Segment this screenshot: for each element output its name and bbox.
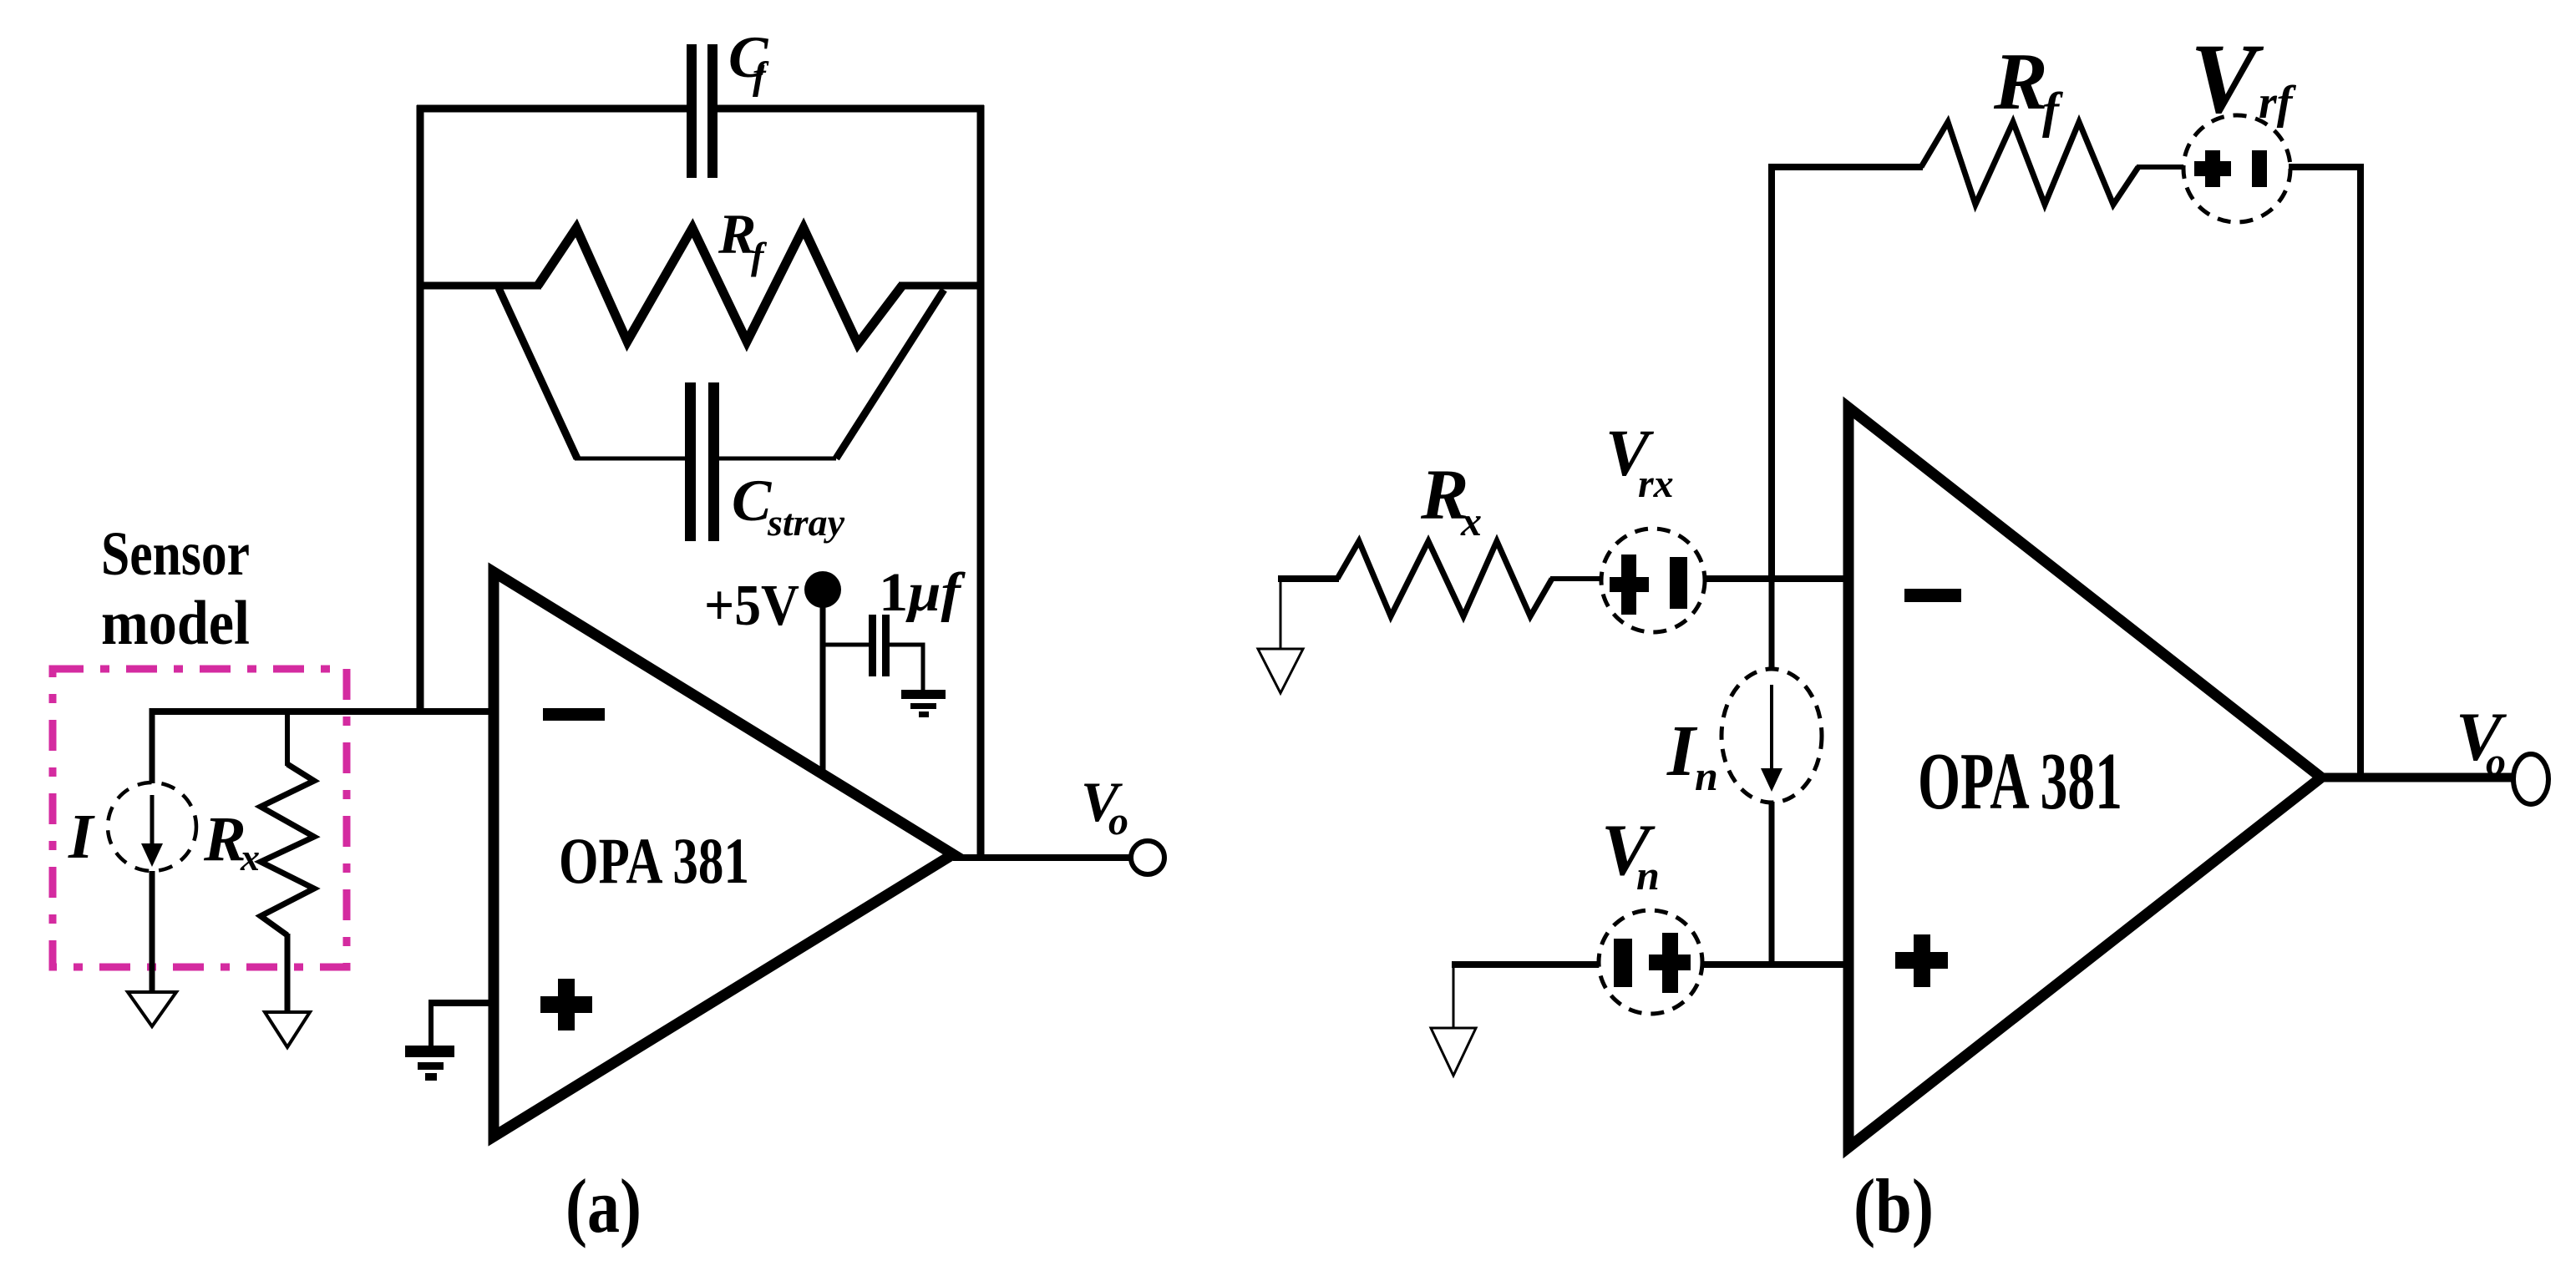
ground below current source I	[128, 992, 176, 1026]
capacitor 1uf	[869, 615, 890, 676]
wire top feedback left segment	[417, 105, 687, 113]
svg-text:C: C	[732, 468, 773, 534]
wire ground stub at non-inverting input	[428, 1000, 434, 1047]
resistor R_f	[538, 228, 902, 344]
svg-text:rx: rx	[1638, 462, 1674, 506]
plus symbol of V_rf	[2194, 150, 2231, 187]
wire Rf row left stub	[420, 282, 541, 290]
wire Vn left stub (b)	[1452, 961, 1600, 968]
wire right slant from C_stray	[836, 290, 944, 458]
wire ground drop left of Vn (b)	[1453, 966, 1455, 1029]
svg-text:x: x	[1460, 498, 1482, 544]
op-amp U1 OPA 381	[494, 572, 953, 1137]
wire ground drop left of Rx (b)	[1280, 580, 1282, 650]
svg-text:f: f	[751, 235, 768, 277]
wire output (b)	[2321, 773, 2514, 782]
wire current source to ground	[150, 871, 155, 993]
plate bar of V_rf	[2252, 150, 2267, 187]
svg-text:o: o	[1108, 799, 1128, 843]
ground below Vn stub (b)	[1431, 1028, 1476, 1076]
ground below Rx stub (b)	[1258, 649, 1303, 693]
arrow of current source I	[141, 795, 163, 867]
capacitor C_stray	[685, 382, 719, 541]
wire bottom of Rx (a)	[285, 934, 291, 1012]
node +5V junction dot	[804, 571, 841, 608]
svg-text:R: R	[1993, 37, 2048, 126]
svg-text:Sensor: Sensor	[101, 519, 250, 589]
pin label plus (b)	[1895, 934, 1948, 987]
terminal Vo (a)	[1131, 841, 1164, 874]
wire left slant to C_stray	[499, 288, 577, 458]
svg-text:R: R	[203, 804, 246, 874]
wire feedback top left stub (b)	[1768, 164, 1923, 170]
wire right vertical of feedback loop	[977, 105, 985, 858]
svg-text:x: x	[240, 836, 260, 879]
pin label plus (a)	[540, 979, 592, 1030]
voltage source V_rf	[2183, 115, 2290, 222]
wire Vrx to inverting input (b)	[1704, 575, 1848, 582]
ground at non-inverting input	[405, 1046, 454, 1081]
svg-text:stray: stray	[767, 501, 845, 544]
svg-text:+5V: +5V	[704, 574, 799, 638]
svg-text:(a): (a)	[565, 1163, 641, 1248]
svg-text:1μf: 1μf	[879, 562, 966, 623]
current source I	[108, 782, 196, 871]
svg-text:n: n	[1695, 752, 1718, 799]
wire 1uf cap right lead	[889, 645, 923, 692]
ground below 1uf	[901, 690, 946, 717]
capacitor C_f	[687, 44, 718, 178]
wire Vn to non-inverting input (b)	[1702, 961, 1848, 968]
voltage source V_rx	[1601, 529, 1705, 632]
wire C_stray right lead	[719, 457, 836, 461]
terminal Vo (b)	[2513, 754, 2548, 804]
svg-text:o: o	[2486, 740, 2506, 784]
voltage source V_n	[1599, 910, 1702, 1014]
svg-text:n: n	[1636, 852, 1660, 899]
svg-text:model: model	[101, 589, 250, 658]
wire In to non-inverting node (b)	[1769, 802, 1775, 965]
resistor R_f (b)	[1921, 122, 2138, 205]
current source I_n	[1722, 669, 1822, 803]
wire inverting input	[152, 708, 494, 715]
wire top of Rx (a)	[285, 708, 290, 766]
wire 1uf cap left lead	[823, 643, 870, 647]
svg-text:OPA 381: OPA 381	[559, 824, 749, 897]
wire Rf row right stub	[899, 282, 984, 290]
plate bar of V_n	[1614, 939, 1632, 987]
svg-text:I: I	[68, 802, 95, 872]
plus symbol of V_n	[1649, 933, 1691, 993]
pin label minus (b)	[1904, 589, 1961, 602]
wire sensor to current source	[150, 708, 155, 783]
resistor R_x (b)	[1337, 541, 1552, 616]
wire Rx left stub (b)	[1278, 575, 1339, 582]
wire inverting node to In (b)	[1769, 579, 1775, 670]
pin label minus (a)	[543, 708, 605, 721]
wire Vrf to right corner (b)	[2289, 164, 2364, 170]
svg-text:V: V	[2190, 23, 2264, 134]
ground below Rx (a)	[265, 1012, 310, 1047]
wire top feedback right segment	[717, 105, 984, 113]
svg-text:I: I	[1666, 710, 1698, 791]
arrow of current source I_n	[1761, 685, 1782, 792]
wire left vertical of feedback loop	[417, 105, 424, 711]
svg-text:(b): (b)	[1853, 1163, 1934, 1248]
op-amp U2 OPA 381 (b)	[1848, 408, 2321, 1147]
plus symbol of V_rx	[1610, 554, 1649, 615]
svg-text:rf: rf	[2259, 77, 2297, 129]
wire Rx to Vrx (b)	[1550, 576, 1603, 581]
sensor model box	[53, 669, 347, 967]
wire feedback right vertical (b)	[2357, 164, 2364, 777]
wire +5V supply drop	[820, 593, 826, 773]
wire non-inverting input	[431, 1000, 494, 1006]
wire output (a)	[953, 854, 1131, 861]
plate bar of V_rx	[1670, 557, 1687, 609]
wire Rf to Vrf (b)	[2137, 165, 2187, 170]
wire C_stray left lead	[575, 457, 687, 461]
svg-text:OPA 381: OPA 381	[1918, 737, 2122, 826]
svg-text:f: f	[2042, 83, 2063, 138]
wire feedback left vertical (b)	[1768, 164, 1775, 579]
resistor R_x (a)	[261, 764, 314, 935]
